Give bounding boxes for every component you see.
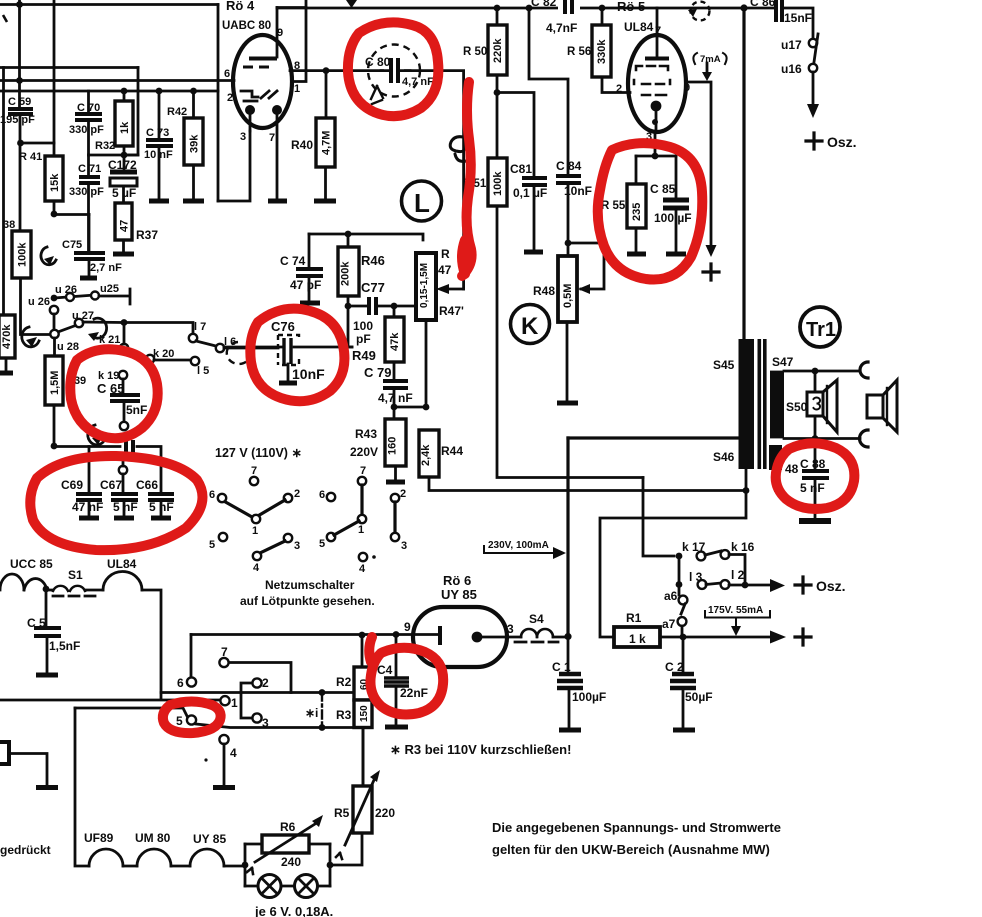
svg-text:4: 4 bbox=[359, 563, 366, 575]
switch l7 l6 bbox=[189, 321, 278, 352]
resistor R38 100k (left) bbox=[3, 143, 89, 335]
capacitor C75 2.7nF bbox=[62, 215, 122, 279]
tube Rö5 UL84 envelope bbox=[616, 0, 690, 143]
capacitor C71 330pF bbox=[69, 155, 104, 252]
wire horizontal rail y=91 to frame bbox=[0, 90, 218, 93]
svg-text:Rö 6: Rö 6 bbox=[443, 573, 471, 588]
transformer core lines bbox=[758, 339, 762, 469]
svg-text:pF: pF bbox=[356, 332, 371, 346]
svg-text:7mA: 7mA bbox=[700, 54, 721, 65]
svg-text:∗ R3 bei 110V kurzschließen!: ∗ R3 bei 110V kurzschließen! bbox=[390, 742, 571, 757]
wire rect top rail y=438 to primary bbox=[568, 436, 738, 439]
svg-text:R2: R2 bbox=[336, 675, 352, 689]
svg-text:4: 4 bbox=[253, 562, 260, 574]
capacitor C85 100uF bbox=[650, 182, 692, 254]
svg-text:∗i: ∗i bbox=[305, 706, 318, 720]
svg-text:R43: R43 bbox=[355, 427, 377, 441]
svg-text:4,7M: 4,7M bbox=[321, 131, 333, 155]
svg-text:7: 7 bbox=[269, 132, 275, 144]
wire C76 branch: from R46 bottom down to y=347 bbox=[348, 306, 352, 347]
svg-text:u17: u17 bbox=[781, 38, 802, 52]
red tail above C4 circle bbox=[369, 637, 372, 662]
resistor block at left edge bbox=[0, 742, 58, 788]
220V group bbox=[319, 465, 407, 575]
svg-text:gedrückt: gedrückt bbox=[0, 843, 51, 857]
svg-text:38: 38 bbox=[3, 219, 15, 231]
wire C59 branch vertical x=19.5 bbox=[18, 0, 21, 108]
dash-dot short strap bbox=[321, 693, 323, 728]
svg-text:5: 5 bbox=[319, 538, 325, 550]
wire y=708 to contact 5 bbox=[75, 708, 187, 716]
svg-text:1k: 1k bbox=[119, 121, 131, 134]
svg-text:235: 235 bbox=[631, 203, 643, 221]
red circle around C88 bbox=[776, 443, 855, 509]
capacitor C172 5uF electrolytic bbox=[108, 155, 137, 203]
switch k19 + C65 bbox=[97, 370, 147, 430]
svg-text:R44: R44 bbox=[441, 444, 463, 458]
svg-text:Rö 5: Rö 5 bbox=[617, 0, 645, 14]
svg-text:2: 2 bbox=[400, 488, 406, 500]
wire y=727 from contact5 area to R3 bottom bbox=[196, 724, 354, 728]
contact 4 grounded bbox=[219, 735, 228, 744]
svg-text:K: K bbox=[521, 313, 539, 340]
svg-text:1 k: 1 k bbox=[629, 632, 646, 646]
svg-text:47: 47 bbox=[438, 263, 452, 277]
svg-text:2,4k: 2,4k bbox=[420, 444, 432, 466]
svg-text:Tr1: Tr1 bbox=[806, 319, 836, 341]
wire top of k21 to l7 bbox=[122, 323, 193, 335]
wire from UY85 rail corner down to contact 6 bbox=[190, 635, 193, 679]
svg-text:220V: 220V bbox=[350, 445, 378, 459]
red circle around C80 bbox=[348, 22, 438, 116]
svg-text:9: 9 bbox=[404, 620, 411, 634]
svg-text:47: 47 bbox=[119, 220, 131, 232]
svg-text:2: 2 bbox=[262, 676, 269, 690]
svg-text:100: 100 bbox=[353, 319, 373, 333]
potentiometer R48 0.5M bbox=[533, 243, 604, 403]
svg-text:C 82: C 82 bbox=[531, 0, 557, 9]
wire top-left horizontal rail y=4 bbox=[0, 3, 218, 6]
7mA measure bracket bbox=[693, 53, 726, 81]
svg-text:C 73: C 73 bbox=[146, 127, 169, 139]
svg-text:C 86: C 86 bbox=[750, 0, 776, 9]
127V group bbox=[209, 465, 300, 574]
wire top rail y=8 from pin9 riser to C86 bbox=[277, 7, 775, 10]
node R40 bbox=[323, 67, 330, 74]
svg-text:47 pF: 47 pF bbox=[290, 278, 321, 292]
capacitor C79 4.7nF bbox=[364, 365, 429, 410]
svg-text:Osz.: Osz. bbox=[827, 134, 857, 150]
svg-text:22nF: 22nF bbox=[400, 686, 428, 700]
svg-text:6: 6 bbox=[224, 68, 230, 80]
trimmer capacitor C76 10nF bbox=[224, 319, 352, 383]
resistor R41 15k bbox=[19, 151, 63, 214]
svg-text:3: 3 bbox=[507, 622, 514, 636]
capacitor C82 4.7nF series in top rail bbox=[531, 0, 580, 35]
svg-text:UM 80: UM 80 bbox=[135, 831, 171, 845]
svg-text:C69: C69 bbox=[61, 478, 83, 492]
svg-text:S47: S47 bbox=[772, 355, 794, 369]
svg-text:k 21: k 21 bbox=[99, 334, 120, 346]
svg-text:S45: S45 bbox=[713, 358, 735, 372]
svg-text:k 20: k 20 bbox=[153, 348, 174, 360]
svg-text:C 80: C 80 bbox=[365, 55, 391, 69]
dashed circle at l6 bbox=[227, 342, 248, 364]
capacitor C70 330pF bbox=[69, 91, 104, 155]
svg-text:48: 48 bbox=[785, 462, 799, 476]
svg-text:R3: R3 bbox=[336, 708, 352, 722]
svg-text:5: 5 bbox=[176, 714, 183, 728]
plus sign bbox=[703, 264, 719, 280]
svg-text:R1: R1 bbox=[626, 611, 642, 625]
svg-text:R32: R32 bbox=[95, 140, 115, 152]
switch u26 u25 bbox=[28, 283, 130, 335]
resistor R50 220k bbox=[463, 5, 507, 158]
capacitor C4 22nF bbox=[377, 635, 428, 728]
resistor R40 4.7M bbox=[291, 71, 336, 201]
svg-text:220: 220 bbox=[375, 806, 395, 820]
svg-text:3: 3 bbox=[294, 540, 300, 552]
wire vertical x=54 from top bbox=[53, 0, 56, 156]
capacitor C69 47nF bbox=[61, 478, 103, 518]
svg-text:S4: S4 bbox=[529, 612, 544, 626]
svg-text:R 41: R 41 bbox=[19, 151, 42, 163]
wire pin8 main rail y=70.6 to C80 and corner x=463.6 bbox=[290, 71, 464, 289]
svg-text:R37: R37 bbox=[136, 228, 158, 242]
capacitor C59 bbox=[0, 96, 54, 146]
coupling hook at C75 bbox=[41, 247, 56, 265]
full width wire y=700 to contact 1 bbox=[0, 699, 220, 702]
resistor 470k (left edge) bbox=[0, 315, 15, 373]
resistor R51 100k bbox=[462, 158, 643, 478]
handwritten black squiggle near x=460 bbox=[450, 137, 467, 162]
svg-text:5 nF: 5 nF bbox=[800, 481, 825, 495]
svg-text:C 88: C 88 bbox=[800, 457, 826, 471]
svg-text:2,7 nF: 2,7 nF bbox=[90, 262, 122, 274]
svg-text:R48: R48 bbox=[533, 284, 555, 298]
svg-text:1: 1 bbox=[252, 525, 258, 537]
capacitor C81 0.1uF bbox=[497, 93, 547, 253]
resistor R49 47k bbox=[352, 306, 404, 380]
svg-text:3: 3 bbox=[401, 540, 407, 552]
svg-text:10nF: 10nF bbox=[292, 366, 325, 382]
wire pin9 down to + bbox=[686, 82, 711, 245]
node C59 top bbox=[16, 77, 23, 84]
svg-text:100k: 100k bbox=[492, 171, 504, 196]
svg-text:2: 2 bbox=[616, 83, 622, 95]
svg-text:100k: 100k bbox=[17, 242, 29, 267]
circle K bbox=[511, 305, 550, 344]
wire bottom U to pin 3 bbox=[218, 131, 250, 201]
resistor R1 1k bbox=[600, 518, 811, 647]
svg-text:4: 4 bbox=[230, 746, 237, 760]
svg-text:15k: 15k bbox=[49, 173, 61, 192]
switch k21 k20 bbox=[99, 323, 209, 378]
cathode dots bbox=[245, 105, 255, 115]
175V 55mA bracket bbox=[705, 605, 770, 636]
main rail y=635 bbox=[191, 633, 440, 636]
node R39 bottom / wire to C69 bbox=[51, 443, 58, 450]
svg-text:4,7 nF: 4,7 nF bbox=[402, 76, 434, 88]
coupling hook u28 bbox=[22, 327, 39, 347]
svg-text:UY 85: UY 85 bbox=[441, 587, 477, 602]
resistor R39 1.5M bbox=[45, 338, 86, 446]
capacitor C80 4.7nF trimmer with dashed circle bbox=[365, 45, 434, 105]
capacitor C74 47pF bbox=[280, 234, 323, 303]
svg-text:C76: C76 bbox=[271, 319, 295, 334]
svg-text:1: 1 bbox=[294, 83, 300, 95]
svg-text:UCC 85: UCC 85 bbox=[10, 557, 53, 571]
svg-text:C4: C4 bbox=[377, 663, 393, 677]
resistor R43 160 bbox=[350, 407, 406, 482]
svg-text:5: 5 bbox=[209, 539, 215, 551]
wire horizontal rail y=67.5 bbox=[0, 66, 138, 69]
svg-text:C 74: C 74 bbox=[280, 254, 306, 268]
capacitor C5 1.5nF bbox=[27, 589, 80, 675]
svg-text:C 84: C 84 bbox=[556, 159, 582, 173]
svg-text:230V, 100mA: 230V, 100mA bbox=[488, 540, 549, 551]
svg-text:R: R bbox=[441, 247, 450, 261]
switch u27 u28 bbox=[50, 310, 122, 353]
svg-text:Netzumschalter: Netzumschalter bbox=[265, 578, 355, 592]
230V 100mA label bbox=[484, 540, 566, 559]
svg-text:0,5M: 0,5M bbox=[562, 284, 574, 308]
svg-text:gelten für den UKW-Bereich (Au: gelten für den UKW-Bereich (Ausnahme MW) bbox=[492, 842, 770, 857]
svg-text:UY 85: UY 85 bbox=[193, 832, 226, 846]
svg-text:47k: 47k bbox=[389, 332, 401, 351]
svg-text:50µF: 50µF bbox=[685, 690, 713, 704]
+ Osz. middle bbox=[795, 577, 811, 593]
capacitor C67 5nF bbox=[100, 478, 138, 518]
red hook top of R47 bbox=[462, 240, 465, 274]
svg-text:u25: u25 bbox=[100, 283, 119, 295]
svg-text:0,15-1,5M: 0,15-1,5M bbox=[419, 263, 430, 308]
wire x=643 drop to k17 bbox=[643, 478, 674, 557]
wire pin1 to x306 riser bbox=[293, 0, 306, 82]
svg-text:R42: R42 bbox=[167, 106, 187, 118]
red vertical squiggle right of C80 bbox=[462, 82, 472, 276]
svg-text:C 59: C 59 bbox=[8, 96, 31, 108]
capacitor C64 series in wire bbox=[126, 440, 133, 453]
svg-text:100µF: 100µF bbox=[572, 690, 606, 704]
external speaker bbox=[867, 380, 897, 432]
red circle around R55/C85 bbox=[598, 143, 703, 279]
svg-text:220k: 220k bbox=[492, 38, 504, 63]
svg-text:150: 150 bbox=[359, 705, 370, 722]
coupling hook k21 bbox=[92, 318, 107, 338]
potentiometer R47 bbox=[416, 247, 464, 407]
resistor R46 200k bbox=[338, 234, 385, 309]
svg-text:2: 2 bbox=[227, 92, 233, 104]
red circle around C76 bbox=[250, 309, 344, 402]
resistor R3 150 bbox=[336, 700, 372, 786]
capacitor C1 100uF bbox=[552, 637, 606, 731]
secondary S47 winding bar bbox=[770, 371, 784, 439]
svg-text:6: 6 bbox=[319, 489, 325, 501]
svg-text:Rö 4: Rö 4 bbox=[226, 0, 255, 13]
resistor R37 47 bbox=[113, 203, 158, 254]
svg-text:175V. 55mA: 175V. 55mA bbox=[708, 605, 763, 616]
svg-text:a7: a7 bbox=[662, 617, 676, 631]
resistor R44 2.4k bbox=[419, 430, 745, 491]
svg-text:6: 6 bbox=[209, 489, 215, 501]
tube pin3 node to R55/C85 bbox=[636, 131, 676, 198]
plug hook top bbox=[860, 362, 868, 378]
svg-text:u 28: u 28 bbox=[57, 341, 79, 353]
svg-text:l 5: l 5 bbox=[197, 365, 209, 377]
svg-text:u 26: u 26 bbox=[28, 296, 50, 308]
switch u17 u16 bbox=[781, 34, 819, 118]
svg-text:195 pF: 195 pF bbox=[0, 114, 35, 126]
wire top rail y=234 bbox=[309, 234, 423, 240]
svg-text:l 7: l 7 bbox=[194, 321, 206, 333]
capacitor C77 100pF series bbox=[348, 280, 415, 346]
svg-text:R49: R49 bbox=[352, 348, 376, 363]
coil S4 bbox=[515, 612, 572, 642]
svg-text:9: 9 bbox=[684, 82, 690, 94]
resistor R32 1k bbox=[89, 88, 139, 159]
svg-text:C77: C77 bbox=[361, 280, 385, 295]
transformer primary S45 winding bar bbox=[739, 339, 755, 469]
svg-text:UF89: UF89 bbox=[84, 831, 114, 845]
svg-text:7: 7 bbox=[360, 465, 366, 477]
svg-text:330 pF: 330 pF bbox=[69, 124, 104, 136]
svg-text:R47': R47' bbox=[439, 304, 464, 318]
svg-text:a6: a6 bbox=[664, 589, 678, 603]
svg-text:C 85: C 85 bbox=[650, 182, 676, 196]
wire horizontal rail y=80.5 to tube pin 6 bbox=[0, 79, 234, 82]
resistor R42 39k bbox=[167, 88, 204, 201]
svg-text:Osz.: Osz. bbox=[816, 578, 846, 594]
svg-text:R 50: R 50 bbox=[463, 46, 487, 58]
svg-text:5nF: 5nF bbox=[126, 403, 147, 417]
svg-text:C67: C67 bbox=[100, 478, 122, 492]
svg-text:1: 1 bbox=[358, 524, 364, 536]
svg-text:L: L bbox=[414, 188, 430, 218]
switch a6 a7 bbox=[662, 589, 687, 637]
svg-text:7: 7 bbox=[251, 465, 257, 477]
svg-text:330k: 330k bbox=[596, 39, 608, 64]
coupling hook a-contact below C65 bbox=[88, 425, 105, 445]
red circle around C4 bbox=[370, 648, 443, 715]
contact circle on C67 bbox=[119, 466, 127, 474]
arrow from top into rail at x=351.5 bbox=[350, 0, 353, 3]
svg-text:l 2: l 2 bbox=[731, 568, 745, 582]
switch k17 k16 bbox=[682, 540, 755, 581]
svg-text:470k: 470k bbox=[1, 324, 13, 349]
svg-text:2: 2 bbox=[294, 488, 300, 500]
capacitor C86 15nF series bbox=[740, 0, 813, 38]
lamps bbox=[245, 885, 330, 888]
svg-text:R 55: R 55 bbox=[601, 200, 626, 212]
resistor R55 235 bbox=[601, 184, 646, 254]
svg-text:S1: S1 bbox=[68, 568, 83, 582]
capacitor C66 5nF bbox=[136, 478, 174, 518]
svg-text:C 79: C 79 bbox=[364, 365, 391, 380]
circle Tr1 bbox=[800, 307, 840, 347]
dashed coupling circle top right bbox=[691, 2, 710, 21]
secondary top lead bbox=[784, 370, 860, 373]
capacitor C88 5nF bbox=[799, 439, 831, 522]
resistor R2 60 bbox=[336, 635, 372, 700]
stray dot bbox=[204, 758, 207, 761]
svg-text:15nF: 15nF bbox=[784, 11, 812, 25]
circle L bbox=[402, 181, 442, 221]
svg-text:160: 160 bbox=[387, 437, 399, 455]
switch l3 l2 bbox=[676, 556, 785, 595]
wire primary bottom lead bbox=[745, 469, 748, 518]
svg-text:auf Lötpunkte gesehen.: auf Lötpunkte gesehen. bbox=[240, 594, 375, 608]
+ Osz. top bbox=[806, 133, 822, 149]
svg-text:0,1 µF: 0,1 µF bbox=[513, 186, 547, 200]
svg-text:C66: C66 bbox=[136, 478, 158, 492]
wire corner x=138 down to R32 bottom row bbox=[124, 68, 138, 156]
svg-text:UABC 80: UABC 80 bbox=[222, 20, 271, 32]
svg-text:Die angegebenen Spannungs- und: Die angegebenen Spannungs- und Stromwert… bbox=[492, 820, 781, 835]
wire y=692.5 from x161 to R2/R3 bbox=[161, 691, 354, 694]
node on top rail bbox=[16, 1, 23, 8]
wire left edge vertical to 470k bbox=[2, 68, 5, 316]
rheostat R5 220 bbox=[330, 728, 395, 866]
svg-text:3: 3 bbox=[240, 131, 246, 143]
svg-text:C81: C81 bbox=[510, 162, 532, 176]
red ellipse around contact 5 bbox=[163, 702, 221, 734]
svg-text:6: 6 bbox=[177, 676, 184, 690]
svg-text:je 6 V. 0,18A.: je 6 V. 0,18A. bbox=[254, 904, 333, 917]
S48 winding bar bbox=[769, 445, 782, 470]
wire long drop x=745 from C86 node to transformer bbox=[742, 8, 745, 339]
capacitor C2 50uF bbox=[665, 637, 713, 730]
svg-text:4,7nF: 4,7nF bbox=[546, 21, 577, 35]
svg-text:39k: 39k bbox=[189, 134, 201, 153]
capacitor C73 10nF bbox=[144, 88, 173, 201]
svg-text:R5: R5 bbox=[334, 806, 350, 820]
svg-text:S46: S46 bbox=[713, 450, 735, 464]
speaker S50 bbox=[786, 374, 837, 438]
capacitor C84 10nF bbox=[526, 5, 592, 247]
svg-text:k 16: k 16 bbox=[731, 540, 755, 554]
svg-text:100 µF: 100 µF bbox=[654, 211, 692, 225]
svg-text:1,5M: 1,5M bbox=[49, 371, 61, 395]
tube Rö4 UABC80 envelope bbox=[233, 35, 292, 128]
lamp/R6 parallel block bbox=[245, 815, 333, 917]
secondary bottom lead bbox=[784, 437, 860, 440]
svg-text:1,5nF: 1,5nF bbox=[49, 639, 80, 653]
svg-text:u16: u16 bbox=[781, 62, 802, 76]
svg-text:R 56: R 56 bbox=[567, 46, 591, 58]
svg-text:UL84: UL84 bbox=[624, 20, 654, 34]
svg-text:330 pF: 330 pF bbox=[69, 186, 104, 198]
svg-text:R40: R40 bbox=[291, 138, 313, 152]
wire vertical frame x=218 down to tube pin3 loop bbox=[217, 5, 220, 202]
plug hook bottom bbox=[860, 430, 869, 447]
svg-text:240: 240 bbox=[281, 855, 301, 869]
svg-text:R6: R6 bbox=[280, 820, 296, 834]
svg-text:R46: R46 bbox=[361, 253, 385, 268]
red circle around k19/C65 bbox=[70, 349, 157, 438]
svg-text:S50: S50 bbox=[786, 400, 808, 414]
internal anode bar bbox=[249, 57, 277, 61]
svg-text:UL84: UL84 bbox=[107, 557, 137, 571]
internal grid structures bbox=[241, 91, 258, 97]
svg-text:1: 1 bbox=[231, 696, 238, 710]
svg-text:127 V (110V) ∗: 127 V (110V) ∗ bbox=[215, 446, 302, 460]
resistor R56 330k bbox=[567, 5, 630, 93]
svg-text:C75: C75 bbox=[62, 239, 82, 251]
red circle around C69/C67/C66 bbox=[30, 456, 202, 550]
svg-text:200k: 200k bbox=[340, 261, 352, 286]
wire S48 to y490 rail bbox=[774, 470, 777, 491]
